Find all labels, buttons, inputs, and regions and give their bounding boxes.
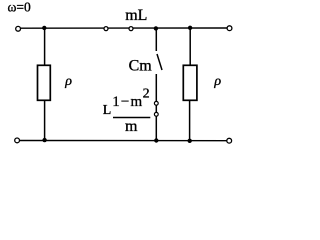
svg-text:ρ: ρ [64, 74, 72, 89]
svg-text:ω=0: ω=0 [8, 0, 31, 15]
svg-text:Cm: Cm [129, 58, 153, 75]
svg-text:1−m: 1−m [112, 94, 143, 110]
svg-text:2: 2 [143, 87, 150, 102]
svg-text:L: L [103, 103, 112, 118]
svg-text:m: m [125, 118, 138, 135]
svg-text:ρ: ρ [213, 74, 221, 89]
svg-text:mL: mL [125, 7, 147, 24]
